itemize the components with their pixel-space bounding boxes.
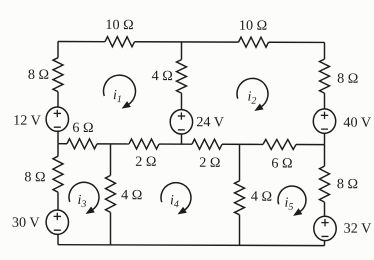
svg-text:6 Ω: 6 Ω bbox=[72, 120, 93, 136]
mesh current i4 bbox=[161, 183, 191, 211]
resistor 10ohm right (top) bbox=[239, 37, 269, 47]
wire bbox=[57, 192, 59, 210]
resistor 8ohm lower-right bbox=[320, 166, 330, 202]
svg-text:30 V: 30 V bbox=[12, 215, 40, 231]
wire right-top bbox=[324, 42, 326, 59]
resistor 6ohm mid-left bbox=[67, 139, 97, 149]
svg-text:8 Ω: 8 Ω bbox=[28, 67, 49, 83]
svg-text:i4: i4 bbox=[170, 193, 179, 210]
svg-text:2 Ω: 2 Ω bbox=[199, 155, 220, 171]
source 30V bbox=[46, 210, 68, 234]
svg-text:i2: i2 bbox=[248, 90, 257, 107]
svg-text:4 Ω: 4 Ω bbox=[121, 187, 142, 203]
wire bbox=[324, 93, 326, 109]
svg-text:10 Ω: 10 Ω bbox=[239, 18, 267, 34]
wire lower branch 2 bbox=[239, 144, 241, 181]
wire bbox=[324, 241, 326, 246]
svg-text:6 Ω: 6 Ω bbox=[271, 155, 292, 171]
wire bbox=[181, 93, 183, 110]
wire bbox=[57, 92, 59, 107]
wire bbox=[159, 143, 192, 145]
wire top-middle segment bbox=[135, 41, 239, 43]
wire top-right segment bbox=[269, 41, 325, 43]
resistor 4ohm lower-left branch bbox=[106, 175, 116, 212]
wire bbox=[222, 143, 263, 145]
mesh current i3 bbox=[69, 182, 99, 210]
wire bbox=[57, 144, 59, 157]
svg-text:8 Ω: 8 Ω bbox=[337, 71, 358, 87]
mesh current i2 bbox=[237, 78, 268, 107]
wire bbox=[324, 145, 326, 167]
source 24V bbox=[170, 110, 192, 134]
wire bbox=[324, 202, 326, 216]
wire bbox=[181, 134, 183, 144]
svg-text:32 V: 32 V bbox=[344, 221, 372, 237]
resistor 2ohm mid-left bbox=[129, 139, 159, 149]
svg-text:40 V: 40 V bbox=[343, 115, 371, 131]
resistor 2ohm mid-right bbox=[192, 139, 222, 149]
svg-text:i1: i1 bbox=[113, 88, 122, 105]
svg-text:12 V: 12 V bbox=[13, 113, 41, 129]
resistor 8ohm lower-left bbox=[53, 156, 63, 192]
svg-text:24 V: 24 V bbox=[196, 114, 224, 130]
svg-text:10 Ω: 10 Ω bbox=[105, 17, 133, 33]
source 12V bbox=[46, 107, 68, 131]
wire bbox=[57, 130, 59, 143]
wire top-left segment bbox=[58, 41, 105, 43]
wire lower branch 1 bbox=[110, 144, 112, 176]
source 32V bbox=[314, 216, 336, 240]
wire bbox=[97, 143, 129, 145]
mesh current i5 bbox=[278, 186, 306, 212]
wire bbox=[110, 212, 112, 245]
svg-text:2 Ω: 2 Ω bbox=[135, 154, 156, 170]
resistor 4ohm lower-right branch bbox=[235, 181, 245, 215]
wire mid row seg1 bbox=[58, 143, 67, 145]
svg-text:4 Ω: 4 Ω bbox=[152, 68, 173, 84]
wire left-top bbox=[57, 42, 59, 58]
svg-text:8 Ω: 8 Ω bbox=[24, 169, 45, 185]
wire bottom bbox=[58, 244, 325, 247]
svg-text:i3: i3 bbox=[78, 193, 87, 210]
resistor 10ohm left (top) bbox=[105, 37, 135, 47]
wire bbox=[296, 144, 325, 146]
wire mid-branch top bbox=[181, 42, 183, 60]
wire bbox=[57, 234, 59, 245]
resistor 4ohm top-middle bbox=[177, 60, 187, 94]
svg-text:8 Ω: 8 Ω bbox=[337, 176, 358, 192]
svg-text:i5: i5 bbox=[285, 196, 294, 213]
resistor 8ohm upper-right bbox=[320, 59, 330, 93]
wire bbox=[324, 133, 326, 144]
wire bbox=[239, 215, 241, 246]
source 40V bbox=[313, 109, 335, 133]
resistor 8ohm upper-left bbox=[53, 58, 63, 92]
resistor 6ohm mid-right bbox=[263, 139, 296, 149]
mesh current i1 bbox=[103, 75, 135, 105]
svg-text:4 Ω: 4 Ω bbox=[251, 189, 272, 205]
